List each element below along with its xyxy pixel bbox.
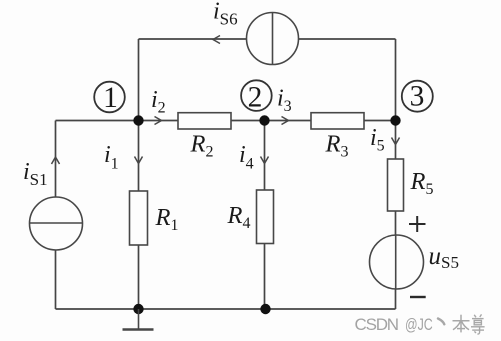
arrow iS1 up [52,157,60,164]
glyph ben [453,315,470,333]
arrow i4 [261,157,269,164]
wire left branch vertical [55,121,57,310]
node dot node1 [133,115,143,125]
svg-text:@JC: @JC [405,316,433,334]
wire node3 vertical [395,39,397,309]
wire node2 vertical [264,121,266,310]
arrow i5 [392,138,400,145]
node dot bottom node2 [260,304,270,314]
resistor R3 [311,113,364,161]
arrow i2 [155,117,162,125]
arrow i3 [282,117,289,125]
wire top from node1 to node3 [139,38,396,40]
wire bottom [56,308,396,310]
current source iS1 [23,159,83,250]
node dot node3 [390,115,400,125]
voltage source uS5 [370,235,459,289]
wire main horizontal [56,120,396,122]
svg-text:1: 1 [103,82,118,114]
node label 1 [94,82,125,114]
resistor R5 [388,159,434,211]
svg-text:CSDN: CSDN [355,315,398,334]
resistor R2 [178,113,231,161]
ground [123,309,154,330]
resistor R4 [227,190,274,244]
glyph dun [438,319,444,325]
resistor R1 [130,191,179,245]
node dot ground junction [133,304,143,314]
current source iS6 [213,0,299,65]
svg-text:2: 2 [248,82,263,114]
watermark CSDN [355,314,485,334]
glyph zun [471,314,485,334]
svg-text:3: 3 [410,81,425,113]
plus sign of uS5 [409,216,426,232]
minus sign of uS5 [410,296,426,298]
arrow i1 [135,157,143,164]
node label 3 [402,81,433,113]
node dot node2 [259,115,269,125]
arrow iS6 left [213,36,220,44]
node label 2 [241,80,272,113]
wire node1 vertical [138,39,140,309]
